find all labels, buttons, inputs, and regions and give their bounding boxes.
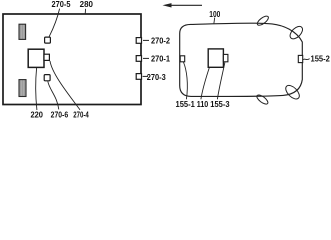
svg-text:270-5: 270-5 (52, 0, 71, 9)
marker 270-5 (45, 37, 51, 43)
marker 270-3 (right edge bottom) (136, 74, 141, 80)
direction arrow (163, 3, 203, 7)
mirror ellipse bottom (255, 93, 269, 105)
charging pad 280 outline (3, 14, 141, 105)
marker 270-6 (44, 75, 50, 81)
leader 220 (36, 68, 37, 110)
leader 155-2 (tilde) (303, 59, 309, 60)
marker 155-3 (attached square) (223, 54, 228, 61)
marker 270-1 (right edge middle) (136, 56, 141, 62)
corner loop top-right (288, 24, 305, 41)
leader dash 270-2 (143, 39, 149, 41)
leader 270-5 (49, 9, 59, 37)
svg-text:220: 220 (30, 110, 43, 119)
leader 100 (213, 18, 216, 24)
leader 270-4 (50, 61, 80, 110)
leader 155-3 (217, 62, 225, 99)
leader 110 (201, 68, 209, 100)
svg-text:155-2: 155-2 (311, 55, 331, 64)
svg-text:110: 110 (197, 100, 209, 109)
svg-text:270-2: 270-2 (151, 37, 170, 46)
marker 270-4 (attached square) (44, 54, 49, 60)
svg-text:270-6: 270-6 (51, 110, 69, 119)
mirror ellipse top (256, 14, 270, 26)
marker 155-1 (left edge rect) (180, 56, 185, 62)
coil element left-bottom (gray) (19, 80, 26, 97)
svg-text:155-3: 155-3 (210, 100, 230, 109)
leader dash 270-3 (143, 75, 148, 77)
svg-text:155-1: 155-1 (176, 100, 196, 109)
controller 220 (28, 49, 44, 67)
svg-text:270-1: 270-1 (151, 55, 170, 64)
vehicle 100 body (180, 23, 303, 96)
leader 155-1 (183, 62, 187, 99)
device 110 in vehicle (208, 49, 223, 67)
corner loop bottom-right (283, 83, 301, 101)
svg-text:280: 280 (80, 0, 94, 9)
leader 270-6 (48, 81, 59, 109)
svg-text:270-4: 270-4 (73, 110, 89, 119)
marker 270-2 (right edge top) (136, 38, 141, 44)
coil element left-top (gray) (19, 24, 26, 39)
svg-text:270-3: 270-3 (147, 73, 166, 82)
marker 155-2 (right edge rect) (298, 55, 302, 62)
leader dash 270-1 (143, 57, 149, 59)
leader 280 (84, 9, 86, 14)
svg-text:100: 100 (209, 10, 220, 19)
